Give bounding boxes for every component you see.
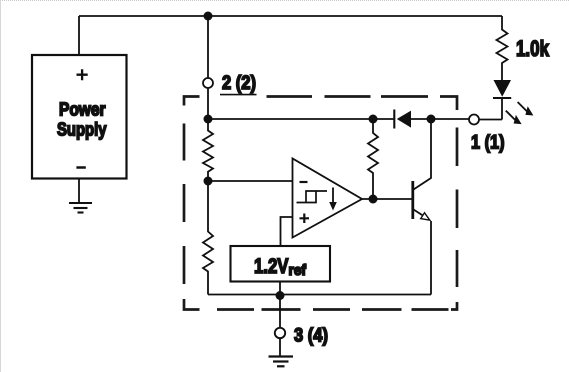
wire top rail — [79, 15, 502, 17]
emitter with arrow — [414, 210, 423, 216]
node junction F (431,119) — [427, 115, 436, 124]
underline under 2 (2) — [220, 94, 257, 96]
resistor R3 (feedback pull-up) — [368, 119, 378, 195]
wire pin 1 to LED leg — [479, 119, 502, 121]
LED light arrow 1 — [518, 102, 528, 112]
wire Vref bottom to rail — [279, 282, 281, 296]
wire pin 3 to ground — [279, 338, 281, 356]
resistor R1 (upper divider) — [203, 119, 213, 177]
wire rail to pin 3 — [279, 296, 281, 328]
power supply box PS — [32, 55, 127, 179]
svg-text:Power: Power — [59, 99, 106, 120]
wire diode to pin 1 — [411, 118, 469, 120]
LED D2 — [494, 80, 512, 97]
LED light arrow 2 — [506, 111, 516, 121]
svg-text:1 (1): 1 (1) — [471, 132, 505, 154]
wire internal top rail — [208, 118, 394, 120]
IC boundary dashed box — [184, 97, 457, 310]
op-amp comparator U1 — [293, 159, 363, 238]
svg-text:2 (2): 2 (2) — [222, 72, 256, 94]
label plus input — [300, 214, 310, 224]
svg-text:Supply: Supply — [57, 119, 107, 140]
node junction D (373,119) — [369, 115, 378, 124]
ground (bottom, pin 3) — [269, 355, 294, 357]
terminal pin 1 circle — [469, 115, 479, 125]
wire pin 2 to internal rail — [207, 88, 209, 119]
label - (power supply minus) — [76, 166, 85, 169]
svg-text:ref: ref — [289, 262, 307, 279]
label + (power supply plus) — [77, 69, 88, 80]
resistor R4 1.0k — [497, 16, 508, 80]
wire bottom internal rail — [208, 294, 431, 296]
diode D1 — [397, 111, 411, 128]
wire op-amp output to base — [362, 198, 412, 200]
node junction C (280,295.5) — [276, 291, 285, 300]
ground (left, below power supply) — [69, 202, 92, 204]
label minus input — [300, 181, 308, 183]
wire plus input — [281, 217, 293, 246]
node junction E output (373,199) — [369, 195, 378, 204]
wire emitter down — [430, 221, 432, 295]
Vref box 1.2Vref — [231, 246, 331, 282]
resistor R2 (lower divider) — [203, 181, 213, 295]
wire PS top to top rail — [78, 16, 80, 55]
svg-text:3 (4): 3 (4) — [294, 325, 328, 347]
arrow (internal, down) — [332, 188, 334, 204]
node junction A (208,119) — [204, 115, 213, 124]
terminal pin 2 circle — [203, 78, 213, 88]
wire top rail down to pin 2 — [207, 16, 209, 78]
wire minus input — [208, 180, 292, 182]
terminal pin 3 circle — [275, 328, 285, 338]
svg-text:1.2V: 1.2V — [254, 255, 289, 278]
svg-text:1.0k: 1.0k — [516, 36, 550, 61]
wire PS bottom to ground — [78, 179, 80, 204]
hysteresis symbol — [297, 191, 328, 203]
node junction at top rail x=208 — [204, 12, 213, 21]
collector — [414, 119, 432, 190]
transistor Q1 base bar — [411, 181, 414, 219]
node junction B (208,181) — [204, 177, 213, 186]
